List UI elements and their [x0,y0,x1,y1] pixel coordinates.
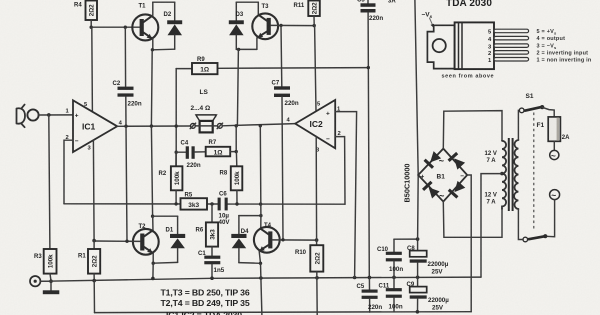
wire T4 base [272,239,316,241]
wire input to R3 [49,115,50,249]
node center tap [500,172,504,176]
wire right long drop [259,126,262,216]
ground terminal [30,276,40,286]
label 12V 7A lower [485,193,497,206]
capacitor C7 [272,25,299,239]
wire D2 to T1 emitter [153,48,175,51]
wire R7 to rail [230,126,236,152]
wire R9 left drop [175,69,177,167]
loudspeaker LS [191,89,217,133]
wire minusV bottom [95,311,472,314]
node R11 base [313,24,316,27]
node T4 emitter [259,262,262,265]
wire D3 to T3 emitter [236,48,257,50]
output rail right [222,124,295,126]
capacitor C4 [176,141,206,169]
wire T1 emitter [152,39,154,50]
node T4 on rail [259,276,263,280]
wire T1 collector [152,2,154,15]
node T1 emitter on rail [150,124,153,127]
wire plusV vertical [415,0,418,239]
op-amp IC2 [287,100,342,153]
wire T4 emitter to rail and below [261,263,262,315]
diode D1 [166,216,186,262]
resistor R5 [181,193,208,210]
label 12V 7A upper [485,151,497,164]
switch S1 pole 2 [523,234,547,242]
wire plus distribution [394,238,418,240]
wire switch to fuse [542,107,554,117]
wire plug to switch pole2 [546,200,555,237]
node R1 on rail [92,279,96,283]
node R8 drop on rail [235,124,238,127]
switch link dashed [533,113,535,232]
wire D2 cathode lead [174,2,176,20]
node C2 tap [124,26,127,29]
node ground [49,279,53,283]
resistor R2 [159,152,183,204]
node C7 tap [279,24,282,27]
wire R1 below rail [93,281,95,313]
wire jack to node [39,114,73,116]
capacitor C3 [357,0,396,277]
feedback rail [64,203,345,205]
wire bridge top AC [443,111,502,149]
node C5 on rail [368,276,372,280]
fuse F1 [537,117,571,141]
wire T3 collector [257,2,259,14]
node C7 on T4 base [281,238,284,241]
node T2 bracket [151,215,154,218]
node T4 bracket [259,214,262,217]
speaker terminal left [190,123,195,128]
resistor R1 [78,241,100,281]
node R1 top [92,239,96,243]
diode D4 [231,216,249,263]
wire IC1 pin5 [91,27,94,111]
wire terminal to rail [40,280,51,282]
wire IC1 pin2 feedback [64,140,73,204]
transistor T4 [254,223,280,253]
output rail mid [195,125,217,127]
TDA2030 package tab [427,25,454,68]
lower rail [40,277,481,281]
wire primary top [518,110,519,140]
node R9 on rail [175,124,178,127]
node R7 R8 join [235,150,238,153]
node C6 R8 [235,202,238,205]
node C4 tap [175,151,178,154]
input plug [17,105,26,128]
capacitor C6 [218,192,231,226]
output rail left [117,125,190,127]
transformer TR primary [514,140,518,209]
TDA2030 pin 1 [488,58,529,64]
node D3 emitter join [237,48,240,51]
ground symbol [43,281,60,294]
node T2 emitter [152,262,155,265]
node R5 R6 C6 [210,202,213,205]
wire fuse to plug [553,141,555,150]
capacitor C5 [357,277,383,312]
resistor R10 [295,240,323,315]
wire center tap [481,174,502,278]
switch S1 pole 1 [519,93,544,113]
wire top bracket D3-T3 [236,1,258,3]
capacitor C9 [407,277,450,312]
node T1 emitter [151,48,154,51]
capacitor C10 [377,239,403,277]
diode D2 [164,12,183,49]
TDA2030 pin 2 [488,51,529,57]
wire T2 collector [152,216,154,232]
capacitor C8 [407,239,449,277]
node C2 on rail [124,125,127,128]
bridge rectifier B1 [418,149,467,202]
wire emitter to output rail [150,50,153,126]
label -Vs arrow [422,12,435,28]
wire node to output rail [237,49,238,125]
node C11 C10 on rail [392,276,396,280]
wire T2 emitter to rail [152,263,154,278]
node R10 top [315,238,319,242]
mains terminal upper [550,150,559,160]
wire T3 emitter [256,38,258,50]
wire bracket D4-T4 [239,215,261,217]
transistor T1 [132,4,158,41]
wire primary bottom [518,209,523,240]
wire T4 collector [260,216,262,229]
wire IC2 pin1 [335,112,356,278]
node minus join [416,310,420,314]
transformer core [509,138,513,211]
wire IC2 pin5 line [315,26,316,111]
wire top bracket T1-D2 [153,1,175,3]
capacitor C11 [379,277,403,312]
mains terminal lower [550,190,560,200]
resistor R3 [34,249,57,281]
wire IC2 pin3 [315,136,317,240]
node R9 C3 join [367,66,370,69]
node IC2 pin1 on rail [353,276,357,280]
transistor T3 [252,4,278,39]
wire bridge minus [467,175,471,312]
resistor R7 [206,140,231,157]
transistor T2 [133,224,159,255]
wire IC2 pin2 [335,137,345,205]
resistor R8 [220,152,243,204]
wire T4 emitter [259,251,260,263]
node C8 C9 on rail [416,275,420,279]
node C1 on rail [210,276,214,280]
wire T2 emitter [152,253,154,263]
capacitor C1 [198,247,225,279]
resistor R11 [294,1,320,26]
wire T2 base [94,240,140,242]
wire bridge bottom AC [443,202,502,238]
wire T3 base [271,24,314,26]
capacitor C2 [113,27,142,126]
TDA2030 pin 3 [488,44,529,50]
wire left long drop [151,126,152,216]
wire D4 to T4 emitter [239,262,261,265]
node input [47,113,51,117]
op-amp IC1 [66,100,123,152]
TDA2030 package body [455,22,494,69]
diode D3 [229,2,244,49]
TDA2030 pin 4 [488,36,529,42]
wire base rail [91,26,140,28]
resistor R6 [196,204,219,247]
node R2 R5 [174,202,177,205]
wire C2 line to T2 base [126,126,127,241]
resistor R4 [74,1,97,21]
TDA2030 pin 5 [488,29,529,35]
node C8 plus [416,237,420,241]
wire R4 to node [90,20,92,27]
speaker terminal right [217,123,222,128]
node T1 base rail [90,26,93,29]
node T2 base C2 [125,240,128,243]
input jack J1 [27,109,38,120]
resistor R9 [176,57,368,74]
wire IC1 pin3 down [92,140,95,240]
transformer TR secondary [502,141,506,209]
wire D1 to T2 emitter [153,261,177,264]
node R10 on rail [315,276,319,280]
node T4 drop on rail [259,124,262,127]
node T4 line on feedback rail [259,202,262,205]
wire bracket T2-D1 [153,215,178,217]
node T2 on rail [151,277,155,281]
